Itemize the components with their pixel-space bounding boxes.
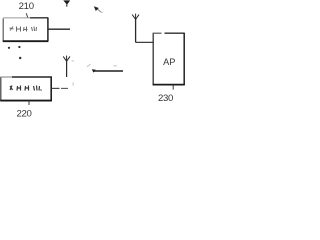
svg-text:220: 220 [16, 108, 31, 119]
svg-text:210: 210 [19, 1, 34, 12]
svg-text:230: 230 [158, 93, 173, 104]
svg-text:AP: AP [163, 57, 175, 67]
